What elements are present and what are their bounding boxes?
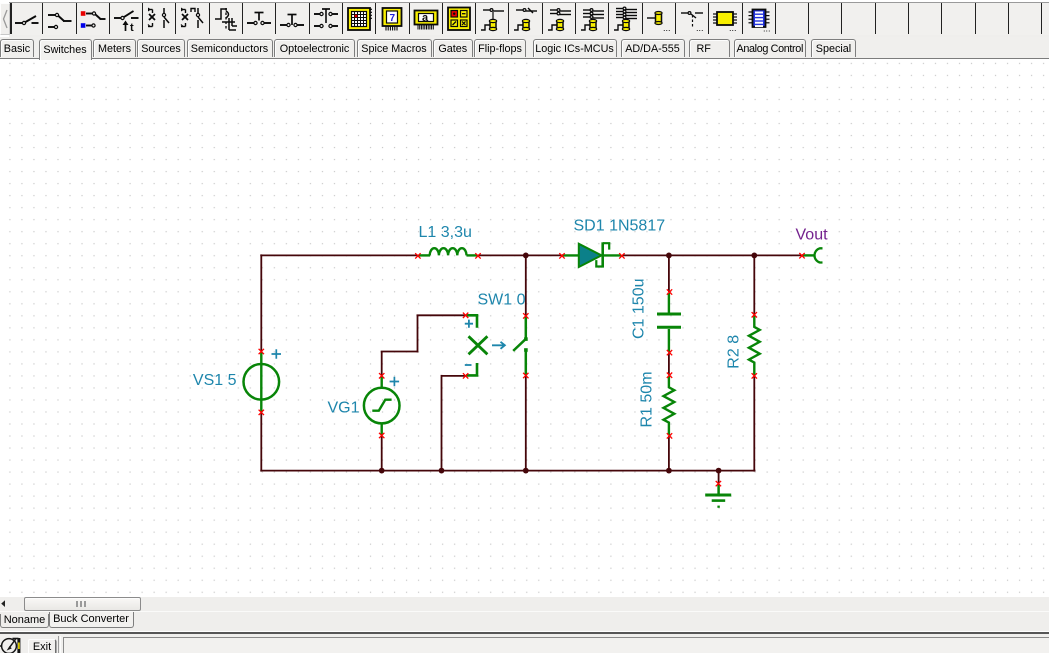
wire: SW1 drain from top rail	[525, 255, 527, 316]
wire: left rail bottom (VS1 minus to bottom rail)	[260, 412, 262, 471]
wire: R2 to bottom right corner	[753, 376, 755, 472]
wire: bottom rail	[260, 470, 755, 472]
wire: VG1 plus up	[381, 352, 383, 376]
R2 terminal marks	[752, 312, 757, 317]
svg-text:L1 3,3u: L1 3,3u	[419, 224, 472, 241]
wire: C1 to R1 link	[668, 353, 670, 376]
svg-text:a: a	[422, 12, 429, 24]
junction node ground	[716, 468, 722, 474]
Schottky diode SD1	[562, 242, 621, 267]
wire: R1 to bottom rail	[668, 436, 670, 471]
svg-text:7: 7	[390, 13, 396, 24]
svg-text:R1 50m: R1 50m	[639, 371, 656, 427]
VG1 terminal marks	[379, 373, 384, 378]
svg-text:...: ...	[663, 23, 671, 32]
svg-text:SD1 1N5817: SD1 1N5817	[574, 218, 666, 235]
voltage generator VG1	[364, 377, 400, 436]
svg-text:R2 8: R2 8	[726, 335, 743, 369]
SW1 terminal marks	[523, 313, 528, 318]
wire: VG1 minus to bottom rail	[381, 436, 383, 471]
SD1 terminal marks	[559, 253, 564, 258]
SW1 control arrow	[492, 342, 505, 349]
VS1 terminal marks	[259, 349, 264, 354]
SW1 minus sign	[465, 364, 472, 366]
resistor R1	[664, 376, 675, 436]
wire: top rail between L1 and SD1	[478, 254, 562, 256]
capacitor C1	[657, 293, 681, 353]
svg-text:VG1: VG1	[327, 400, 359, 417]
svg-text:...: ...	[696, 23, 704, 32]
wire: VG1 control run to SW1 plus	[381, 351, 418, 353]
wire: C1 branch from top rail	[668, 255, 670, 292]
wire: SW1 minus control to bottom rail	[442, 375, 466, 377]
wire: SW1 source to bottom rail	[525, 376, 527, 471]
C1 terminal marks	[667, 289, 672, 294]
resistor R2	[749, 315, 760, 375]
svg-text:C1 150u: C1 150u	[631, 279, 648, 340]
svg-text:SW1 0: SW1 0	[478, 292, 526, 309]
R1 terminal marks	[667, 373, 672, 378]
junction node SW bottom	[523, 468, 529, 474]
svg-text:t: t	[130, 22, 134, 32]
L1 terminal marks	[415, 253, 420, 258]
wire: left rail top (VS1 plus to top-left corner)	[260, 254, 262, 351]
switch SW1 control X	[469, 336, 488, 354]
wire: R2 branch from top rail	[753, 255, 755, 314]
svg-text:...: ...	[763, 23, 771, 32]
ground	[705, 484, 731, 508]
wire: top rail left segment	[260, 254, 418, 256]
junction node C1 top	[666, 253, 672, 259]
wire: top rail SD1 to Vout terminal	[622, 254, 802, 256]
junction node Vout	[751, 253, 757, 259]
svg-text:...: ...	[729, 23, 737, 32]
SW1 plus control bracket	[466, 315, 477, 327]
Vout terminal mark	[799, 253, 804, 258]
svg-text:VS1 5: VS1 5	[193, 372, 237, 389]
junction node SW1-L1	[523, 253, 529, 259]
SW1 minus control bracket	[466, 363, 477, 375]
SW1 plus sign	[465, 320, 473, 328]
VS1 plus sign	[272, 349, 282, 358]
wire: ground stem	[718, 471, 720, 484]
SW1 contact	[513, 317, 527, 376]
svg-text:Vout: Vout	[796, 227, 829, 244]
junction node VG1 bottom	[379, 468, 385, 474]
VG1 plus sign	[390, 377, 400, 386]
junction node SW ctl bottom	[439, 468, 445, 474]
ground terminal mark	[716, 481, 721, 486]
voltage source VS1	[243, 353, 279, 412]
inductor L1	[419, 248, 478, 255]
output terminal Vout	[802, 248, 823, 262]
junction node R1 bottom	[666, 468, 672, 474]
